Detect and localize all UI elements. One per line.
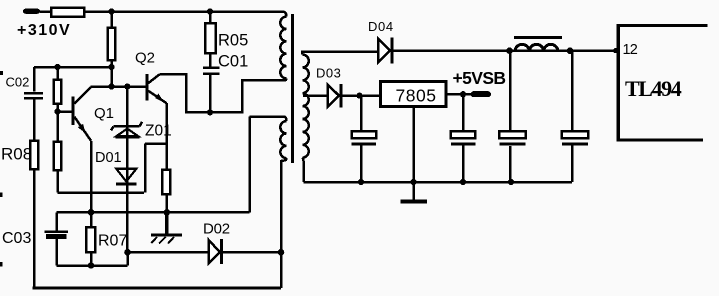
node D-R07 <box>88 262 95 269</box>
capacitor C05 <box>451 131 476 145</box>
node B-R07 <box>88 209 95 216</box>
regulator U2 7805 <box>381 82 447 107</box>
wire 7805 output <box>446 91 471 95</box>
svg-text:C03: C03 <box>2 230 31 247</box>
node E-R06 <box>54 64 60 70</box>
wire C02 column upper <box>33 67 36 92</box>
node pin12 <box>613 48 618 53</box>
node bus-C05 <box>460 179 466 185</box>
svg-text:D04: D04 <box>368 19 394 34</box>
primary winding top <box>282 12 287 17</box>
svg-text:D03: D03 <box>316 66 341 81</box>
svg-text:D02: D02 <box>203 221 230 238</box>
node C01-coll <box>207 109 213 115</box>
node out-C05 <box>460 91 466 97</box>
ground (output) <box>400 182 427 204</box>
wire emitter branch y=143.7 <box>145 144 167 193</box>
node E-R02 <box>108 64 114 70</box>
node L1-out <box>567 47 574 54</box>
node bus-C04 <box>358 179 364 185</box>
node bus-C06 <box>508 179 514 185</box>
svg-text:+310V: +310V <box>17 22 71 39</box>
left edge scan marks <box>0 71 3 267</box>
resistor R08 <box>30 141 38 170</box>
terminal +5VSB <box>471 91 492 97</box>
wire output ground bus <box>304 181 573 184</box>
resistor R05 <box>205 23 216 53</box>
svg-text:Q1: Q1 <box>94 105 114 122</box>
resistor R02 (upper bias) <box>108 28 115 61</box>
secondary winding <box>301 52 302 55</box>
svg-text:R07: R07 <box>98 233 127 250</box>
node bus-7805 <box>410 179 416 185</box>
ground (left) <box>151 212 182 243</box>
svg-text:12: 12 <box>623 42 638 58</box>
resistor R07 <box>86 212 95 265</box>
capacitor C06 <box>499 131 525 145</box>
wire Z01/D01 column <box>126 87 129 253</box>
node B-gnd <box>164 209 171 216</box>
wire Q2 collector routing <box>160 74 282 112</box>
wire line A y=192.5 <box>58 191 145 194</box>
diode D03 <box>328 84 342 108</box>
svg-text:+5VSB: +5VSB <box>453 68 506 88</box>
core <box>291 14 294 163</box>
node F-Z01 <box>124 83 130 89</box>
wire D03 line y=95.7 <box>303 94 381 97</box>
zener Z01 <box>111 122 142 137</box>
node C-D01 <box>124 249 131 256</box>
diode D04 <box>378 38 392 64</box>
node F-R02 <box>108 83 114 89</box>
transformer T1 <box>242 12 309 183</box>
node Q1 base <box>54 108 60 114</box>
capacitor C07 column <box>571 51 574 182</box>
wire D04 line y=50.7 <box>301 49 617 52</box>
wire line C y=252.3 <box>128 251 282 254</box>
resistor R06 (upper) <box>54 80 61 104</box>
wire Q2 emitter column <box>166 103 169 170</box>
capacitor C03 <box>44 212 68 265</box>
terminal +310V input <box>23 9 40 14</box>
svg-text:7805: 7805 <box>396 86 437 106</box>
capacitor C04 <box>352 131 377 145</box>
node C-wind2 <box>278 249 285 256</box>
diode D01 <box>116 169 137 186</box>
node rail-R05 <box>207 8 213 14</box>
svg-text:Q2: Q2 <box>135 50 155 67</box>
svg-text:C02: C02 <box>6 74 30 89</box>
transistor Q2 <box>145 74 166 103</box>
capacitor C04 column <box>360 96 363 182</box>
capacitor C02 <box>24 93 43 98</box>
fuse FU1 <box>51 8 84 17</box>
svg-text:R05: R05 <box>218 31 248 49</box>
svg-text:TL494: TL494 <box>625 76 682 101</box>
wire Q1 base <box>58 110 72 113</box>
wire vertical column x=111.5 <box>110 12 113 87</box>
wire bottom rail <box>33 287 282 290</box>
capacitor C07 <box>562 131 588 145</box>
inductor L1 <box>514 36 562 51</box>
capacitor C01 <box>203 68 219 74</box>
transistor Q1 <box>72 87 91 141</box>
wire line E y=67 <box>34 66 112 69</box>
node L1-in <box>506 47 513 54</box>
wire line D y=265.5 <box>57 252 128 265</box>
wire winding2 bottom column <box>280 160 283 288</box>
aux winding <box>283 117 287 122</box>
diode D02 <box>209 239 222 264</box>
wire C01 down <box>209 75 212 112</box>
svg-text:D01: D01 <box>95 150 122 166</box>
wire line B y=212.3 <box>57 117 284 213</box>
node D03-C04 <box>356 93 362 99</box>
wire R10 to line B <box>166 194 169 212</box>
wire top rail <box>40 10 282 13</box>
capacitor C06 column <box>509 51 512 182</box>
svg-text:C01: C01 <box>218 52 248 70</box>
resistor R05 column <box>209 12 212 67</box>
svg-text:Z01: Z01 <box>145 123 172 140</box>
wire column x=57.5 <box>56 67 59 193</box>
IC U1 TL494 <box>617 24 708 142</box>
resistor R09 (lower) <box>54 142 61 171</box>
wire C02 to R08 <box>33 100 36 288</box>
wire 7805 ground pin <box>412 107 415 183</box>
wire Q1 collector to line F <box>91 85 146 88</box>
svg-text:R08: R08 <box>1 145 32 164</box>
resistor R10 (emitter) <box>162 170 170 195</box>
node rail-R02 <box>108 8 114 14</box>
wire Q1 emitter column <box>90 141 93 213</box>
capacitor C05 column <box>462 94 465 182</box>
